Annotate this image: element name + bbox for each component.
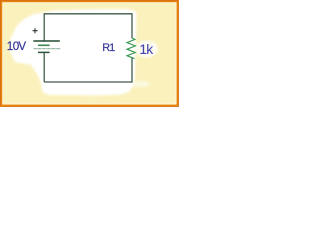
panel: pale yellow with orange frame bbox=[1, 1, 178, 106]
white blob behind circuit bbox=[10, 9, 137, 96]
faint smudge right of bottom corner bbox=[130, 81, 150, 87]
wire: top horizontal bbox=[44, 13, 132, 15]
battery V1 plate short bottom bbox=[38, 51, 50, 53]
battery V1 plate long light bbox=[34, 48, 61, 50]
wire: left vertical (battery bottom lead) bbox=[43, 53, 45, 82]
svg-text:R1: R1 bbox=[102, 42, 115, 54]
inner cream line inside frame bbox=[3, 3, 176, 104]
page background bbox=[0, 0, 181, 110]
wire: right vertical (resistor bottom lead) bbox=[131, 59, 133, 83]
wire: left vertical (battery top lead) bbox=[43, 13, 45, 41]
wire: bottom horizontal bbox=[44, 81, 132, 83]
battery light plate texture bbox=[34, 48, 61, 50]
halo around 1k label bbox=[135, 41, 158, 58]
resistor R1 zigzag bbox=[127, 38, 135, 59]
svg-text:10V: 10V bbox=[7, 40, 27, 53]
battery V1 plate short bbox=[38, 44, 50, 46]
battery V1 plate long top bbox=[33, 40, 60, 42]
plus sign of battery bbox=[33, 28, 38, 33]
wire: right vertical (resistor top lead) bbox=[131, 13, 133, 38]
svg-text:1k: 1k bbox=[139, 42, 153, 57]
